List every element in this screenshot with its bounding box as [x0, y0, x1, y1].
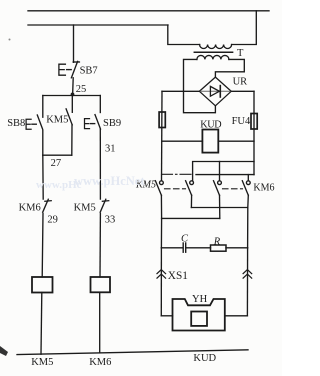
node 25 junction dot	[71, 93, 75, 97]
wire: contact 4 top stub	[247, 175, 249, 181]
wire: SB7 to node 25	[72, 78, 75, 96]
svg-text:27: 27	[51, 158, 62, 169]
chuck YH inner coil square	[191, 312, 207, 326]
svg-text:KM5: KM5	[74, 202, 96, 213]
wire: crossover H2 joining contacts 1 and 3	[162, 217, 220, 219]
wire: top supply rail 2	[28, 24, 168, 26]
svg-text:T: T	[237, 48, 244, 59]
wire: crossover H1 joining contacts 2 and 4	[191, 207, 247, 209]
pushbutton SB9 (NO)	[85, 115, 101, 129]
connector XS1 (left half)	[157, 270, 166, 279]
wire: SB9 branch upper lead	[99, 96, 101, 113]
coil KM5	[32, 277, 53, 293]
svg-text:KM6: KM6	[253, 182, 274, 193]
capacitor C	[183, 243, 186, 252]
wire: parallel loop bottom	[43, 154, 72, 156]
wire: C to R segment	[186, 247, 210, 249]
wire: left rail to connector	[160, 248, 162, 316]
wire: right lead into chuck YH	[225, 315, 248, 317]
svg-text:31: 31	[105, 144, 116, 155]
wire: secondary right lead to bridge top	[215, 59, 244, 77]
wire: rail 2 drop to transformer primary	[168, 25, 200, 45]
wire: SB9 lower lead with node 31	[99, 129, 101, 199]
rectifier bridge UR diamond	[199, 77, 231, 106]
svg-text:XS1: XS1	[168, 270, 188, 282]
connector XS1 (right half)	[243, 270, 252, 279]
fuse FU4 (right)	[251, 114, 257, 130]
svg-text:KM5: KM5	[46, 115, 68, 126]
wire: contact3 bottom lead	[219, 195, 221, 218]
mechanical linkage dash-dot	[162, 173, 192, 175]
transformer T core	[194, 51, 232, 53]
scan mark bottom-left edge	[0, 346, 8, 356]
wire: R to right rail	[226, 247, 248, 249]
contact KM6 main 4	[242, 181, 250, 195]
wire: SB7 column upper lead	[73, 25, 75, 62]
wire: KUD to right rail	[218, 140, 254, 142]
svg-text:YH: YH	[192, 294, 208, 305]
contact KM5 main 1	[155, 181, 163, 195]
wire: right DC rail upper	[253, 91, 255, 174]
svg-text:29: 29	[47, 215, 58, 226]
fuse FU4 (left)	[159, 112, 165, 128]
svg-text:33: 33	[105, 215, 116, 226]
wire: right rail down to C-R tap	[247, 208, 249, 248]
wire: bridge left output to left DC rail	[162, 90, 199, 92]
svg-text:SB9: SB9	[103, 118, 121, 129]
contact KM5 auxiliary (NO)	[66, 109, 72, 125]
svg-text:C: C	[181, 234, 189, 245]
electromagnetic chuck YH body	[173, 299, 225, 331]
svg-text:UR: UR	[233, 77, 248, 88]
wire: contact2 bottom lead	[190, 195, 192, 207]
wire: top supply rail 1	[28, 10, 269, 12]
wire: contact 3 top lead	[219, 162, 221, 181]
protector KUD box	[202, 130, 218, 153]
svg-text:SB7: SB7	[80, 66, 98, 77]
svg-text:FU4: FU4	[232, 116, 251, 127]
svg-text:KUD: KUD	[193, 353, 216, 364]
svg-text:KM5: KM5	[31, 357, 53, 368]
linkage dashes KM5 pair	[165, 188, 186, 190]
svg-text:25: 25	[76, 84, 87, 95]
linkage dashes KM6 pair	[223, 188, 243, 190]
wire: contact4 bottom lead	[247, 195, 250, 207]
scan speck	[9, 39, 11, 41]
svg-text:R: R	[213, 237, 221, 248]
wire: secondary left lead to bridge bottom	[184, 59, 216, 112]
svg-text:KM6: KM6	[19, 202, 41, 213]
wire: KM5 aux lower lead	[71, 125, 73, 155]
wire: transformer primary right lead to rail 1	[232, 11, 257, 45]
contact KM6 main 3	[214, 181, 222, 195]
contact KM5 auxiliary (NO) upper lead	[71, 96, 73, 113]
contact KM6 interlock (NC)	[43, 199, 52, 212]
transformer T secondary winding	[197, 55, 229, 59]
wire: coil KM5 to bottom rail	[40, 293, 43, 355]
wire: KM6 NC to coil KM5	[41, 213, 44, 277]
resistor R	[211, 245, 227, 251]
pushbutton SB8 (NO)	[26, 115, 43, 129]
wire: left DC rail upper	[161, 91, 164, 181]
coil KM6	[91, 277, 111, 292]
wire: bottom rail	[17, 350, 248, 355]
svg-text:KM6: KM6	[89, 357, 111, 368]
rectifier UR diode	[201, 86, 231, 97]
wire: right rail to connector	[246, 248, 248, 316]
wire: coil KM6 to bottom rail	[99, 292, 101, 352]
wire: feeder line to contact 4 top	[196, 174, 254, 176]
watermark text	[36, 174, 145, 191]
svg-text:www.pHcNet: www.pHcNet	[74, 174, 145, 188]
wire: left rail down to C-R tap	[160, 218, 162, 247]
wire: SB8 branch upper lead	[42, 96, 44, 118]
wire: right rail tap to contact 2 top	[193, 162, 254, 181]
svg-text:SB8: SB8	[7, 118, 25, 129]
contact KM5 main 2	[186, 181, 194, 195]
wire: parallel loop top	[43, 95, 101, 97]
svg-text:KUD: KUD	[200, 120, 221, 131]
wire: left lead into chuck YH	[161, 315, 172, 317]
wire: bridge right output to right DC rail	[231, 90, 254, 92]
wire: left column lead down from loop	[42, 155, 44, 199]
wire: KM5 NC to coil KM6	[99, 213, 101, 277]
wire: C-R branch left segment	[161, 247, 182, 249]
transformer T primary winding	[200, 45, 232, 49]
contact KM5 interlock (NC)	[100, 199, 109, 212]
pushbutton SB7 (NC)	[59, 61, 80, 77]
wire: SB8 lower lead	[42, 131, 44, 156]
wire: left rail to KUD	[162, 140, 202, 142]
wire: contact1 bottom to left rail	[160, 195, 162, 218]
